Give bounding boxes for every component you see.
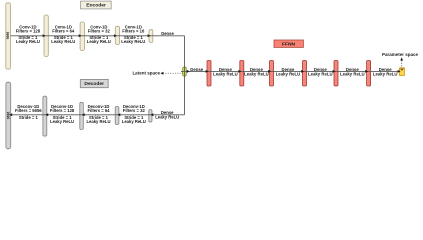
svg-text:Decoder: Decoder — [84, 81, 104, 87]
svg-text:Leaky ReLU: Leaky ReLU — [308, 71, 333, 76]
svg-text:Leaky ReLU: Leaky ReLU — [155, 115, 179, 120]
svg-text:Stride = 1: Stride = 1 — [19, 115, 39, 120]
svg-text:9696: 9696 — [6, 32, 10, 40]
svg-text:Leaky ReLU: Leaky ReLU — [87, 119, 111, 124]
svg-text:FFNN: FFNN — [282, 41, 296, 47]
svg-text:Filters = 64: Filters = 64 — [88, 108, 111, 113]
svg-text:Filters = 5656: Filters = 5656 — [15, 108, 42, 113]
svg-text:Leaky ReLU: Leaky ReLU — [87, 39, 111, 44]
svg-text:Filters = 16: Filters = 16 — [122, 29, 145, 34]
svg-text:Encoder: Encoder — [86, 3, 106, 9]
svg-text:Filters = 32: Filters = 32 — [123, 108, 146, 113]
svg-text:Leaky ReLU: Leaky ReLU — [50, 119, 74, 124]
svg-text:Filters = 128: Filters = 128 — [16, 29, 41, 34]
svg-text:Dense: Dense — [190, 67, 204, 72]
svg-text:Filters = 64: Filters = 64 — [52, 29, 75, 34]
svg-text:Leaky ReLU: Leaky ReLU — [373, 71, 398, 76]
svg-text:Leaky ReLU: Leaky ReLU — [213, 71, 238, 76]
svg-text:9696: 9696 — [6, 112, 10, 120]
svg-text:Leaky ReLU: Leaky ReLU — [122, 119, 146, 124]
svg-text:Leaky ReLU: Leaky ReLU — [16, 39, 40, 44]
svg-text:Dense: Dense — [161, 31, 174, 36]
svg-text:Latent space: Latent space — [132, 71, 160, 76]
svg-text:Leaky ReLU: Leaky ReLU — [51, 39, 75, 44]
svg-text:Filters = 128: Filters = 128 — [50, 108, 75, 113]
svg-text:Leaky ReLU: Leaky ReLU — [276, 71, 301, 76]
svg-text:Filters = 32: Filters = 32 — [88, 29, 111, 34]
svg-text:Parameter space: Parameter space — [382, 52, 419, 57]
svg-text:Leaky ReLU: Leaky ReLU — [121, 39, 145, 44]
svg-text:Leaky ReLU: Leaky ReLU — [340, 71, 365, 76]
svg-text:Leaky ReLU: Leaky ReLU — [244, 71, 269, 76]
